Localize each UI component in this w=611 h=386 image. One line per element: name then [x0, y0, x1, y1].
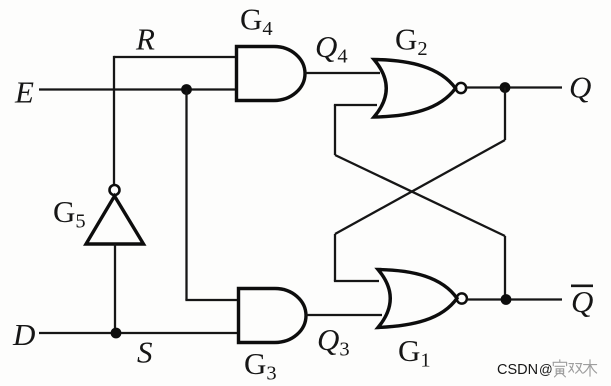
svg-text:@: @ [539, 362, 553, 377]
glyph mu [584, 360, 597, 376]
junction Q node [500, 82, 511, 93]
wire R horizontal to G4 top input [114, 56, 235, 58]
wire E input horizontal [39, 88, 235, 90]
svg-text:R: R [135, 22, 155, 57]
svg-text:CSDN: CSDN [497, 362, 538, 378]
junction on E wire [181, 84, 192, 95]
watermark CSDN @yinshuangmu [497, 360, 597, 378]
wire Q output [466, 86, 562, 88]
svg-text:Q: Q [569, 70, 591, 105]
wire feedback vertical into G1 [334, 234, 336, 281]
inverter G5 [86, 185, 144, 244]
junction on D wire [111, 328, 122, 339]
junction Qbar node [501, 294, 512, 305]
wire E branch vertical [185, 90, 187, 301]
wire E branch to G3 top input [185, 299, 237, 301]
wire R vertical from G5 output [113, 56, 115, 185]
wire Qbar output [467, 298, 562, 300]
wire feedback Q vertical down [504, 88, 506, 141]
wire G3 output to G1 bottom input [306, 314, 382, 316]
svg-text:S: S [137, 335, 153, 370]
nor-gate G1 [378, 270, 467, 328]
wire D input horizontal [39, 332, 237, 334]
svg-text:D: D [12, 317, 35, 352]
wire feedback vertical from G2 input [334, 105, 336, 155]
glyph shuang [569, 364, 583, 374]
and-gate G3 [239, 289, 307, 343]
nor-gate G2 [374, 60, 466, 118]
wire G2 lower input stub [334, 104, 377, 106]
and-gate G4 [237, 47, 306, 101]
wire G1 upper input stub [334, 280, 379, 282]
label Qbar [571, 284, 593, 319]
svg-text:E: E [14, 75, 34, 110]
wire feedback diagonal Q to G1 [335, 140, 505, 234]
wire G5 input vertical [114, 244, 116, 333]
svg-text:Q: Q [571, 284, 593, 319]
wire feedback diagonal Qbar to G2 [335, 155, 505, 236]
glyph yin [553, 360, 567, 377]
wire G4 output to G2 top input [305, 72, 380, 74]
wire feedback vertical to Qbar node [504, 236, 506, 300]
